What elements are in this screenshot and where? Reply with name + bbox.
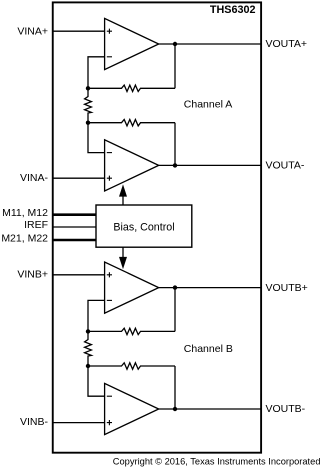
wire RB3 right end down to B2 output	[174, 366, 176, 409]
svg-text:VINB+: VINB+	[17, 269, 48, 281]
wire bias down arrow to B1	[122, 247, 124, 257]
wire RB1 right end up to B1 output	[174, 288, 176, 332]
wire VINB+ input to B1 +	[53, 274, 105, 276]
wire VINB- input to B2 +	[53, 422, 105, 424]
chip boundary rectangle THS6302	[53, 2, 261, 452]
svg-text:VOUTA-: VOUTA-	[266, 159, 305, 171]
wire B1 output to VOUTB+	[159, 287, 261, 289]
wire RA1 right end up to A1 output	[174, 44, 176, 88]
svg-text:VOUTB+: VOUTB+	[266, 282, 308, 294]
wire A2 output to VOUTA-	[159, 164, 261, 166]
node NA2 junction dot	[86, 121, 90, 125]
op-amp A1 plus pin	[107, 29, 112, 34]
node A1 output junction dot	[173, 42, 177, 46]
svg-text:Bias, Control: Bias, Control	[113, 221, 174, 233]
op-amp B2 plus pin	[107, 420, 112, 425]
op-amp A2 plus pin	[107, 176, 112, 181]
op-amp A2 (channel A, inverting bottom)	[105, 140, 159, 191]
svg-text:VOUTA+: VOUTA+	[266, 38, 308, 50]
wire A1 output to VOUTA+	[159, 43, 261, 45]
op-amp A1 minus pin	[107, 56, 112, 58]
wire bias up arrow to A2	[122, 196, 124, 205]
svg-text:Channel A: Channel A	[184, 98, 232, 110]
node B1 output junction dot	[173, 285, 177, 289]
resistor RA1 (feedback row 1)	[88, 85, 175, 91]
op-amp B1 minus pin	[107, 299, 112, 301]
node NB1 junction dot	[86, 329, 90, 333]
block U1 Bias, Control	[96, 205, 192, 247]
resistor RB1 (feedback row 3)	[88, 328, 175, 334]
wire RA3 right end down to A2 output	[174, 123, 176, 166]
op-amp B2 minus pin	[107, 395, 112, 397]
wire A2 - input up to node NA2	[88, 123, 105, 153]
op-amp A2 minus pin	[107, 152, 112, 154]
wire B2 output to VOUTB-	[159, 408, 261, 410]
op-amp A1 (channel A, non-inverting top)	[105, 18, 159, 69]
wire A1 - input to node NA1	[88, 57, 105, 89]
svg-text:IREF: IREF	[24, 219, 48, 231]
svg-text:VINA-: VINA-	[20, 172, 49, 184]
wire B1 - input to node NB1	[88, 300, 105, 331]
wire IREF input line	[53, 226, 96, 228]
node NA1 junction dot	[86, 86, 90, 90]
svg-text:M11, M12: M11, M12	[2, 207, 48, 219]
svg-text:Copyright © 2016, Texas Instru: Copyright © 2016, Texas Instruments Inco…	[113, 456, 321, 466]
svg-text:VOUTB-: VOUTB-	[266, 403, 306, 415]
node A2 output junction dot	[173, 163, 177, 167]
op-amp B1 plus pin	[107, 272, 112, 277]
wire B2 - input up to node NB2	[88, 366, 105, 396]
bus M11,M12 input line	[53, 213, 96, 216]
resistor RA3 (feedback row 2)	[88, 120, 175, 126]
node B2 output junction dot	[173, 407, 177, 411]
svg-text:THS6302: THS6302	[210, 4, 256, 16]
svg-text:Channel B: Channel B	[184, 343, 233, 355]
resistor RB2 (vertical between NB1 and NB2)	[85, 331, 92, 366]
op-amp B2 (channel B, inverting bottom)	[105, 383, 159, 434]
op-amp B1 (channel B, non-inverting top)	[105, 262, 159, 313]
bus M21,M22 input line	[53, 239, 96, 242]
svg-text:VINA+: VINA+	[17, 25, 48, 37]
node NB2 junction dot	[86, 364, 90, 368]
svg-text:VINB-: VINB-	[20, 416, 49, 428]
resistor RA2 (vertical between NA1 and NA2)	[85, 88, 92, 122]
svg-text:M21, M22: M21, M22	[1, 233, 48, 245]
wire VINA- input to A2 +	[53, 177, 105, 179]
resistor RB3 (feedback row 4)	[88, 363, 175, 369]
wire VINA+ input to A1 +	[53, 30, 105, 32]
